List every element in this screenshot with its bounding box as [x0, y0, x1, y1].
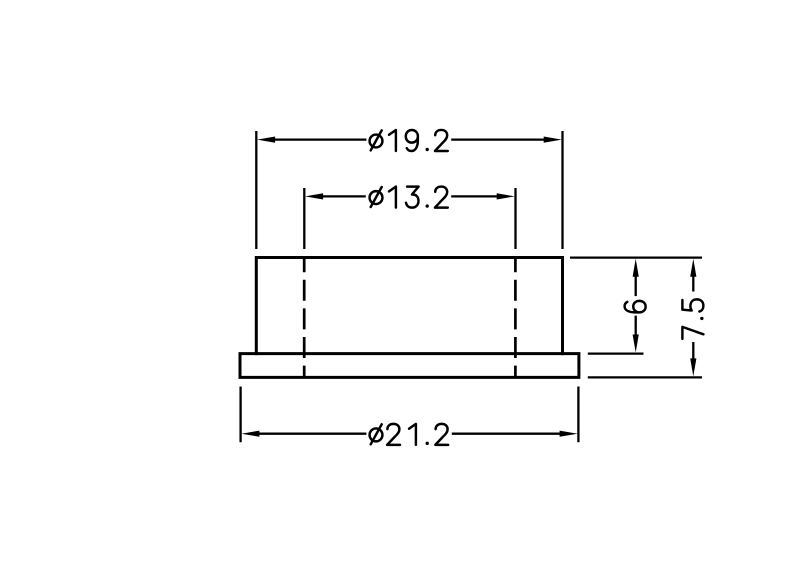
dimension Ø21.2 arrow right	[560, 431, 578, 437]
dimension 7.5 text (rotated)	[682, 299, 703, 339]
body outline (upper rectangle of flanged bushing section)	[256, 258, 562, 354]
dimension Ø19.2 extension line right	[561, 131, 563, 249]
dimension Ø13.2 line left segment	[322, 195, 366, 197]
dimension 7.5 arrow down	[690, 358, 696, 376]
extension line flange-bottom extended right (for dim 7.5)	[588, 376, 702, 378]
dimension 7.5 line upper segment	[692, 276, 694, 291]
dimension 6 line lower segment	[635, 316, 637, 335]
hidden line right (hole wall, dashed)	[514, 258, 517, 378]
dimension Ø13.2 arrow left	[305, 193, 323, 199]
dimension Ø21.2 line right segment	[452, 433, 561, 435]
dimension Ø13.2 line right segment	[451, 195, 498, 197]
dimension Ø13.2 extension line right	[514, 188, 516, 249]
extension line flange-top extended right (for dim 6)	[588, 352, 644, 354]
dimension Ø21.2 line left segment	[258, 433, 366, 435]
hidden line left (hole wall, dashed)	[303, 258, 306, 378]
dimension Ø19.2 line left segment	[274, 138, 366, 140]
dimension 7.5 line lower segment	[692, 342, 694, 359]
dimension Ø21.2 extension line right	[577, 387, 579, 443]
dimension 6 arrow up	[633, 259, 639, 277]
dimension Ø19.2 arrow left	[257, 137, 275, 143]
dimension Ø19.2 arrow right	[544, 137, 562, 143]
dimension 7.5 arrow up	[690, 259, 696, 277]
dimension 6 arrow down	[633, 335, 639, 353]
dimension 6 text (rotated)	[625, 301, 646, 313]
dimension Ø13.2 arrow right	[497, 193, 515, 199]
dimension Ø21.2 text	[370, 424, 449, 445]
dimension Ø19.2 extension line left	[255, 131, 257, 249]
flange outline (lower wide rectangle)	[240, 354, 579, 378]
dimension 6 line upper segment	[635, 276, 637, 296]
dimension Ø21.2 arrow left	[241, 431, 259, 437]
dimension Ø19.2 text	[370, 130, 448, 151]
dimension Ø19.2 line right segment	[451, 138, 545, 140]
dimension Ø21.2 extension line left	[239, 387, 241, 443]
extension line body-top extended right (datum for 6 and 7.5)	[570, 256, 702, 258]
dimension Ø13.2 text	[370, 187, 448, 208]
dimension Ø13.2 extension line left	[303, 188, 305, 249]
